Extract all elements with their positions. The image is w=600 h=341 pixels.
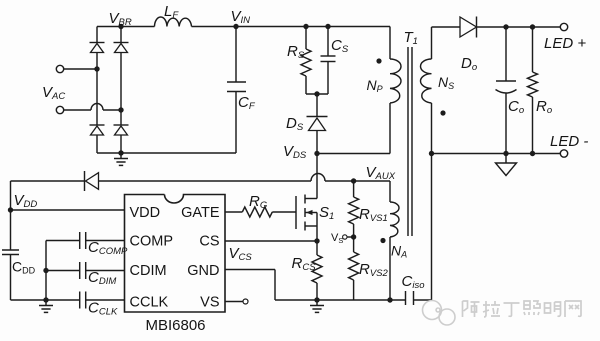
label S1 <box>319 204 334 222</box>
wire GATE to RG <box>225 211 242 213</box>
svg-text:LED +: LED + <box>544 35 586 52</box>
wire primary ground rail <box>275 299 406 301</box>
svg-text:COMP: COMP <box>130 234 174 250</box>
terminal LED- <box>550 133 588 157</box>
polarity dot NP <box>376 58 381 63</box>
polarity dot NS <box>440 110 445 115</box>
ground left <box>39 300 53 312</box>
node VDD <box>8 192 38 213</box>
label NS <box>438 74 454 91</box>
wire VDD left column <box>10 181 12 250</box>
wire VDD top to diode <box>11 180 85 182</box>
svg-text:CCLK: CCLK <box>130 295 169 311</box>
wire LED bottom rail <box>432 153 561 155</box>
diode D4 bridge lower-right <box>114 125 129 153</box>
label VAC <box>42 84 65 102</box>
inductor LF <box>155 3 192 27</box>
diode DS <box>286 94 328 154</box>
node bridge ground <box>118 150 123 155</box>
ground RCS <box>310 300 324 312</box>
wire CS to sense node <box>225 240 317 242</box>
wire top rail VBR to LF <box>97 26 155 28</box>
node RCS ground <box>314 297 319 302</box>
node RS top <box>303 24 308 29</box>
resistor RG <box>242 193 272 217</box>
node sec bottom <box>429 151 434 156</box>
label NP <box>367 77 383 94</box>
node VS divider <box>351 234 356 239</box>
svg-text:LED -: LED - <box>550 133 588 150</box>
node VDS <box>283 143 320 161</box>
svg-text:CDIM: CDIM <box>130 263 167 279</box>
wire AC bottom to right leg <box>103 109 121 111</box>
capacitor CF <box>227 27 256 154</box>
transformer secondary NS <box>420 27 460 154</box>
diode DVdd <box>85 171 99 191</box>
node AC2 <box>118 107 123 112</box>
svg-text:VDD: VDD <box>130 205 161 221</box>
wire CDD bottom rail <box>11 299 80 301</box>
resistor Ro <box>528 27 553 154</box>
capacitor CCOMP <box>46 232 128 257</box>
node Co bottom <box>503 151 508 156</box>
wire bridge bottom rail <box>97 152 236 154</box>
node aux ground <box>387 297 392 302</box>
resistor RVS2 <box>349 237 389 300</box>
capacitor Co <box>496 27 525 154</box>
polarity dot NA <box>380 238 385 243</box>
label NA <box>391 243 407 260</box>
ground secondary floating <box>496 154 517 176</box>
op-amp U1 MBI6806 body <box>125 195 226 313</box>
terminal VAC top <box>56 65 97 72</box>
wire VDS rail <box>317 153 390 155</box>
wire hop over left bridge leg <box>91 104 103 111</box>
node VBR <box>109 10 132 29</box>
node VIN <box>231 8 251 29</box>
diode Do <box>460 17 560 74</box>
wire VDD to chip <box>11 209 125 211</box>
capacitor CDD <box>2 250 36 300</box>
node bus CDIM <box>43 268 48 273</box>
label VCS <box>229 245 253 263</box>
capacitor CDIM <box>46 262 125 287</box>
watermark logo <box>423 301 582 326</box>
capacitor Ciso <box>402 154 432 306</box>
node Ro bottom <box>530 151 535 156</box>
wire diode to hop <box>99 180 312 182</box>
terminal VS test <box>331 232 354 245</box>
svg-text:GATE: GATE <box>181 205 220 221</box>
terminal LED+ <box>544 23 586 52</box>
terminal VAC bottom <box>56 106 91 113</box>
capacitor CS <box>321 27 349 95</box>
wire hop to VAUX <box>325 180 390 182</box>
node left ground <box>43 297 48 302</box>
svg-text:CS: CS <box>199 234 219 250</box>
wire RG to gate <box>272 211 296 213</box>
node snubber <box>314 91 319 96</box>
diode D2 bridge upper-right <box>114 27 129 126</box>
transformer primary NP <box>390 27 401 154</box>
capacitor CCLK <box>80 292 125 318</box>
node Co top <box>503 24 508 29</box>
node CS top <box>325 24 330 29</box>
svg-text:VS: VS <box>200 295 219 311</box>
node CS sense <box>314 238 319 243</box>
resistor RVS1 <box>349 181 388 237</box>
transformer aux NA <box>390 181 399 300</box>
resistor RS <box>287 27 311 95</box>
node VAUX <box>351 164 396 184</box>
wire top rail LF to primary <box>192 26 391 28</box>
wire snubber join <box>306 93 328 95</box>
node Ro top <box>530 24 535 29</box>
transistor S1 MOSFET <box>296 154 317 242</box>
transformer T1 core <box>404 29 418 236</box>
diode D1 bridge upper-left <box>90 27 105 126</box>
svg-text:GND: GND <box>187 263 219 279</box>
label MBI6806 <box>145 317 205 334</box>
diode D3 bridge lower-left <box>90 125 105 153</box>
ground bridge <box>114 153 128 165</box>
node AC1 <box>94 66 99 71</box>
wire ground bus <box>45 241 47 301</box>
wire hop over drain <box>311 174 325 181</box>
resistor RCS <box>292 241 323 300</box>
svg-text:MBI6806: MBI6806 <box>145 317 205 334</box>
terminal VS pin <box>225 299 248 304</box>
wire GND pin <box>225 270 275 301</box>
